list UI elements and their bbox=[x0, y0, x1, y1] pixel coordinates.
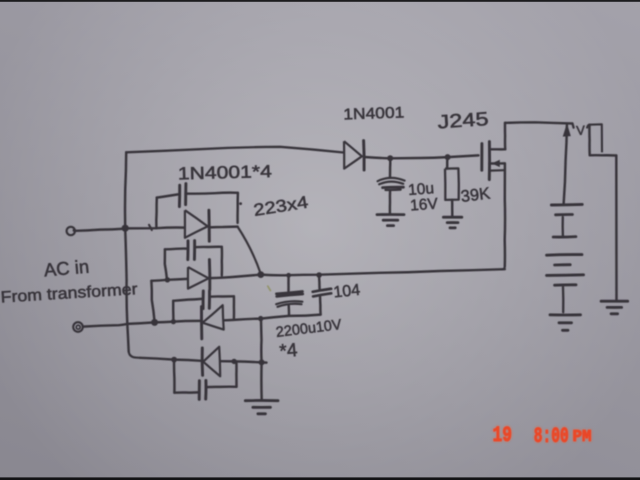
wire ground branch from W3 through W4 bbox=[260, 319, 263, 400]
resistor R1 39K bottom lead bbox=[451, 200, 454, 216]
timestamp time 8:00 PM bbox=[534, 423, 592, 449]
bottom black border bbox=[0, 477, 640, 480]
node dot W2 diagonal junction bbox=[257, 271, 264, 278]
terminal T2 AC input bottom bbox=[73, 322, 83, 332]
diode D3 1N4001 bridge (points left) bbox=[201, 305, 223, 339]
timestamp date 19 bbox=[493, 422, 513, 448]
wire from terminal T1 to node J1 bbox=[76, 229, 126, 231]
capacitor C7 104 top lead bbox=[316, 272, 322, 289]
connector J2 tab above rail bbox=[587, 124, 602, 155]
wire step from tab to right ground branch bbox=[590, 155, 617, 300]
wire diagonal from W1 right end down to W2 bbox=[238, 227, 261, 274]
label *4 bbox=[279, 340, 299, 363]
tick mark on wire W1 bbox=[149, 225, 152, 230]
wire W1 rung through diode D1 bbox=[125, 227, 237, 229]
capacitor C2 223 plates bbox=[188, 241, 195, 260]
label AC in bbox=[43, 256, 90, 281]
transistor Q1 J245 drain lead bbox=[489, 123, 505, 149]
label J245 bbox=[437, 109, 489, 134]
capacitor C2 223 left lead bbox=[165, 249, 186, 280]
wire W3 rung from terminal T2 bbox=[83, 315, 321, 327]
node dot W3 at W2 drop bbox=[151, 319, 158, 326]
capacitor C5 10u/16V top lead bbox=[389, 159, 392, 178]
resistor R1 39K top lead bbox=[446, 157, 449, 168]
label 39K bbox=[460, 185, 491, 206]
wire W2 rung and long run to J245 source bbox=[151, 269, 504, 281]
capacitor C7 104 bottom lead joining W3 end bbox=[319, 297, 322, 315]
label From transformer bbox=[0, 281, 139, 306]
label 16V bbox=[410, 196, 439, 215]
capacitor C4 223 plates bbox=[199, 380, 206, 399]
node dot W4 cap C4 lead bbox=[171, 357, 177, 363]
ground G5 under R1 bbox=[443, 217, 461, 228]
ground G3 right side bbox=[601, 301, 628, 314]
top black border bbox=[0, 0, 640, 2]
label 2200u10V bbox=[275, 317, 343, 341]
transistor Q1 J245 gate bar bbox=[480, 144, 483, 171]
capacitor C7 104 plates bbox=[313, 289, 332, 297]
label 1N4001 half-wave diode bbox=[343, 104, 405, 123]
svg-text:1N4001: 1N4001 bbox=[343, 104, 405, 123]
capacitor C3 223 plates bbox=[203, 291, 209, 309]
label 223x4 bbox=[252, 193, 309, 220]
ground G1 bridge bbox=[245, 400, 278, 413]
capacitor C1 223 plates bbox=[179, 184, 186, 207]
svg-text:1N4001*4: 1N4001*4 bbox=[178, 161, 273, 183]
node dot W3 ground branch bbox=[258, 316, 263, 321]
transistor Q1 J245 source lead with arrow bbox=[489, 161, 505, 171]
node dot bias rail at R1 bbox=[445, 154, 451, 160]
ground G2 under battery B1 bbox=[550, 315, 581, 331]
label 1N4001*4 bbox=[178, 161, 273, 183]
node J1 junction dot AC1 bbox=[122, 225, 129, 232]
diode D2 1N4001 bridge (points right) bbox=[188, 260, 210, 290]
transistor Q1 J245 channel bar bbox=[488, 142, 491, 180]
pen dot near C1 right vertical bbox=[239, 202, 242, 205]
label V output bbox=[576, 123, 586, 138]
wire Q1 source down to W2 bbox=[502, 164, 506, 270]
svg-text:PM: PM bbox=[573, 427, 592, 446]
capacitor C3 223 right lead bbox=[210, 296, 234, 318]
battery B1 cell bars bbox=[547, 204, 584, 312]
node dot W4 ground branch bbox=[259, 359, 265, 365]
battery B1 lead with arrowhead bbox=[563, 125, 570, 205]
svg-text:16V: 16V bbox=[410, 196, 439, 215]
capacitor C1 223 loop left vertical bbox=[155, 198, 158, 229]
diode D4 1N4001 bridge (points left) bbox=[202, 347, 220, 377]
capacitor C4 223 right lead bbox=[206, 362, 236, 387]
svg-text:19: 19 bbox=[493, 422, 513, 448]
wire gate bias rail after D5 bbox=[364, 155, 478, 158]
svg-text:8:00: 8:00 bbox=[534, 423, 569, 449]
svg-text:*4: *4 bbox=[279, 340, 299, 363]
capacitor C5 10u curved top plate bbox=[378, 178, 405, 184]
svg-text:AC in: AC in bbox=[43, 256, 90, 281]
svg-text:104: 104 bbox=[333, 282, 361, 302]
ground G4 under C5 bbox=[377, 215, 404, 226]
svg-text:J245: J245 bbox=[437, 109, 489, 134]
label 10u bbox=[408, 180, 435, 199]
terminal T1 AC input top bbox=[67, 227, 76, 235]
wire W4 rung bbox=[140, 358, 267, 363]
capacitor C2 223 right lead bbox=[195, 247, 222, 276]
capacitor C6 2200u plates bbox=[276, 292, 303, 307]
svg-text:V: V bbox=[576, 123, 586, 138]
capacitor C1 223 top lead right bbox=[186, 193, 238, 194]
wire left vertical from J1 down to W4 corner bbox=[125, 228, 140, 357]
node dot W4 cap C4 right lead bbox=[231, 359, 236, 364]
svg-text:39K: 39K bbox=[460, 185, 491, 206]
capacitor C4 223 left lead bbox=[174, 360, 198, 393]
wire left vertical AC1 node (x~126) bbox=[125, 152, 126, 228]
capacitor C6 2200u bottom lead bbox=[287, 305, 290, 316]
resistor R1 39K body box bbox=[445, 168, 459, 200]
wire W2 left end drop down to W3 bbox=[151, 281, 154, 322]
node dot W3 cap C3 lead bbox=[171, 319, 176, 324]
capacitor C5 10u bottom lead bbox=[389, 190, 392, 213]
capacitor C3 223 left lead bbox=[173, 299, 201, 322]
capacitor C6 2200u/10V top lead bbox=[286, 273, 291, 291]
label 104 bbox=[333, 282, 361, 302]
pen speck on paper near C6 bbox=[268, 286, 271, 290]
diode D5 1N4001 (half-wave, points right) bbox=[344, 141, 364, 170]
node dot bias rail at C5 bbox=[387, 155, 393, 161]
capacitor C1 loop right vertical bbox=[236, 193, 239, 223]
node dot W2 cap C2 lead bbox=[165, 277, 170, 282]
diode D1 1N4001 bridge (points right) bbox=[185, 210, 209, 241]
wire V rail from Q1 drain bbox=[505, 122, 574, 127]
wire W1 top rail from AC1 corner to 1N4001 anode bbox=[126, 147, 343, 153]
capacitor C1 223 top lead left bbox=[157, 194, 178, 197]
capacitor C5 10u bottom plate bbox=[383, 187, 404, 190]
